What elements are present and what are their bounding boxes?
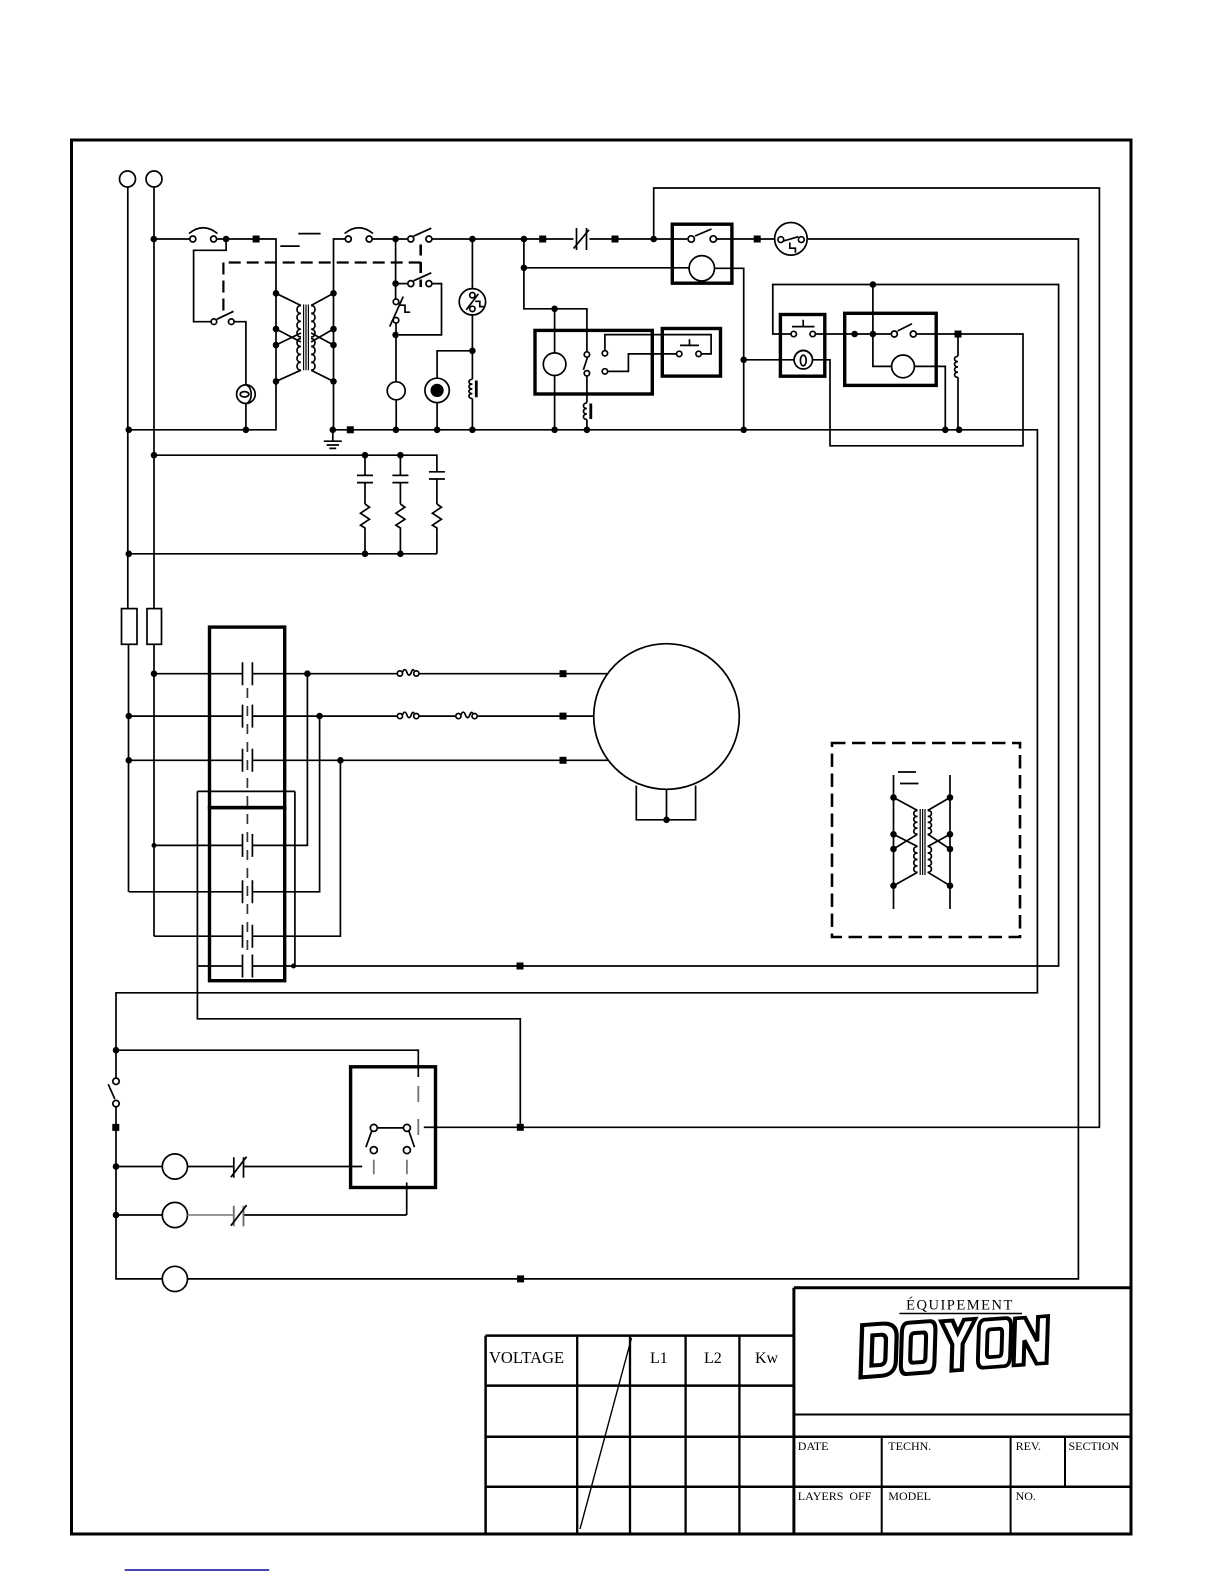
relay K2 contact xyxy=(891,324,916,337)
blue mark bottom xyxy=(125,1569,270,1571)
logo DOYON xyxy=(857,1312,1052,1378)
fuse F1 xyxy=(122,609,138,645)
wire S4 bottom to coil R1 xyxy=(586,376,588,430)
capacitor C2 xyxy=(392,455,408,504)
wire snubber bus y554 xyxy=(129,553,437,555)
transformer TR1 left winding upper xyxy=(297,306,301,337)
wire S1b branch xyxy=(194,239,227,322)
relay K1 box xyxy=(672,224,732,283)
pilot lamp E3 xyxy=(237,385,256,404)
contactor aux frame left xyxy=(197,791,520,1123)
node square N3 xyxy=(612,236,619,243)
voltage table columns xyxy=(577,1336,739,1534)
pilot lamp PL1 xyxy=(162,1154,187,1179)
svg-text:L2: L2 xyxy=(704,1350,722,1367)
terminal circle T1 xyxy=(120,171,136,187)
svg-text:L1: L1 xyxy=(650,1350,668,1367)
wire lamp P2 right loop xyxy=(813,334,1024,446)
wire K3 output stub xyxy=(424,1126,436,1128)
contact main 5 xyxy=(243,880,253,903)
voltage table diagonal xyxy=(580,1338,632,1529)
NC contact NC1 xyxy=(231,1157,247,1178)
node square N8 xyxy=(560,713,567,720)
svg-text:REV.: REV. xyxy=(1016,1439,1041,1453)
transformer TR1 left winding lower xyxy=(297,339,301,371)
terminal circle T2 xyxy=(146,171,162,187)
pilot lamp PL2 xyxy=(162,1202,187,1227)
node square N4 xyxy=(754,236,761,243)
wire motor phase 3 xyxy=(129,759,608,761)
relay K3 box xyxy=(351,1067,436,1188)
wire S3b loop back xyxy=(399,284,442,335)
wire PL1 leads xyxy=(116,1166,362,1168)
wire contact 6 loop xyxy=(154,760,340,936)
coil L5 xyxy=(955,356,958,377)
coil lamp E2 xyxy=(387,382,405,400)
motor terminal box xyxy=(636,786,695,820)
thermal cutout contact TC1 xyxy=(574,228,590,250)
wire aux pair bottom to button B1 left xyxy=(608,354,677,372)
contactor box K1M xyxy=(210,627,285,808)
node square N6 xyxy=(347,426,354,433)
resistor R4 xyxy=(432,504,441,554)
wire K1 coil left feed xyxy=(524,267,689,269)
contact main 6 xyxy=(243,925,253,948)
transformer TR2 left winding lower xyxy=(914,847,918,873)
wire upper loop y188 to relay K3 output xyxy=(436,188,1100,1127)
overload OL2a xyxy=(397,712,419,718)
transformer TR2 marks xyxy=(898,772,919,784)
push button PB2 xyxy=(791,320,815,337)
button box B1 xyxy=(662,329,720,377)
thermal branch x395 xyxy=(395,239,398,430)
transformer TR2 left winding upper xyxy=(914,811,918,835)
svg-text:VOLTAGE: VOLTAGE xyxy=(489,1348,564,1367)
node square N7 xyxy=(560,670,567,677)
wire lamp P2 left feed xyxy=(744,359,794,361)
motor M1 xyxy=(594,644,740,790)
pilot lamp P2 xyxy=(794,350,812,369)
wire motor phase 1 xyxy=(154,673,608,675)
contact main 1 xyxy=(243,662,253,685)
wire sensor branch x437 xyxy=(437,351,472,430)
wire PL2 leads xyxy=(116,1214,407,1216)
switch S1b xyxy=(211,311,234,324)
contactor aux frame right xyxy=(294,791,296,966)
title block column separators xyxy=(882,1437,1065,1534)
wire bus segment e xyxy=(432,238,574,240)
relay K3 contacts xyxy=(366,1124,415,1153)
border frame xyxy=(72,140,1132,1534)
transformer TR2 right winding lower xyxy=(928,847,932,873)
wire L1 vertical xyxy=(127,187,130,892)
transformer TR2 right winding upper xyxy=(928,811,932,835)
contact main 3 xyxy=(243,749,253,772)
contact aux 7 xyxy=(243,955,253,978)
resistor R2 xyxy=(361,504,370,554)
wire heater lamp bottom lead xyxy=(554,376,556,430)
contactor box K2M xyxy=(210,808,285,981)
overload OL1 xyxy=(397,670,419,677)
dashed interlock vertical to S1b xyxy=(222,263,224,314)
transformer TR1 core xyxy=(304,305,309,371)
wire L2 vertical xyxy=(153,187,155,936)
wire TH1 to right drop xyxy=(188,239,1079,1279)
relay K2 box xyxy=(845,313,937,385)
node square N2 xyxy=(539,236,546,243)
svg-text:LAYERS OFF: LAYERS OFF xyxy=(798,1489,872,1503)
wire motor phase 2 xyxy=(129,715,594,717)
voltage table frame xyxy=(486,1336,794,1534)
capacitor C3 xyxy=(429,472,445,504)
heater box H1 xyxy=(535,330,652,394)
transformer TR2 diagonals xyxy=(894,798,951,886)
thermal protector TP1 xyxy=(390,297,411,327)
contact main 4 xyxy=(243,834,253,857)
node square N9 xyxy=(560,757,567,764)
wire contact 5 loop xyxy=(129,716,320,892)
wire bus segment f xyxy=(590,238,688,240)
dashed contact stubs K3 xyxy=(374,1160,407,1175)
wire contact 4 loop xyxy=(154,674,307,846)
pilot lamp PL3 xyxy=(162,1266,187,1291)
wire snubber feed y455 xyxy=(154,455,437,472)
transformer TR1 right winding upper xyxy=(311,306,315,337)
switch S3a xyxy=(408,228,432,242)
svg-text:TECHN.: TECHN. xyxy=(888,1439,931,1453)
node square N13 xyxy=(112,1124,119,1131)
coil R1 with bar xyxy=(583,403,590,420)
wire K3 bottom to lamp2 line xyxy=(406,1183,408,1216)
overload OL2b xyxy=(456,712,477,718)
transformer TR1 right winding lower xyxy=(311,339,315,371)
dashed box remote transformer xyxy=(832,743,1020,937)
node square N1 xyxy=(253,236,260,243)
wire K1 coil right to drop x743 xyxy=(715,268,744,430)
svg-text:Kw: Kw xyxy=(755,1350,779,1367)
wire aux pair top loop to button B1 xyxy=(605,335,711,354)
thermostat TH1 xyxy=(775,223,808,256)
transformer TR2 left lead xyxy=(893,775,895,909)
switch S3b xyxy=(396,273,432,287)
switch S5 xyxy=(108,1078,119,1107)
button box B2 xyxy=(780,315,824,377)
transformer TR1 diagonals xyxy=(276,293,334,381)
heater coil L3 with bar xyxy=(469,379,476,398)
wire heater feed drop x523 xyxy=(524,239,587,352)
relay K2 coil xyxy=(892,355,915,378)
wire top bus to transformer left lead and left bus xyxy=(129,239,276,430)
svg-text:MODEL: MODEL xyxy=(888,1489,931,1503)
svg-text:NO.: NO. xyxy=(1016,1489,1036,1503)
breaker CB2 xyxy=(345,228,373,242)
svg-text:SECTION: SECTION xyxy=(1069,1439,1120,1453)
dashed interlock link S3 xyxy=(419,245,422,288)
node square N5 xyxy=(955,331,962,338)
title block row line 2 xyxy=(794,1435,1131,1438)
node square N10 xyxy=(517,963,524,970)
wire K2 coil feed vertical xyxy=(873,285,892,367)
defrost timer DT1 xyxy=(459,289,485,315)
title block logo divider xyxy=(794,1414,1131,1416)
wire transformer right lead to breaker CB2 xyxy=(334,239,346,430)
transformer TR2 core xyxy=(920,809,925,875)
fuse F2 xyxy=(147,609,162,645)
heater aux contact pair xyxy=(602,351,607,375)
capacitor C1 xyxy=(357,455,373,504)
sensor bulb SB1 xyxy=(425,378,449,402)
breaker CB1 xyxy=(189,228,218,242)
transformer TR2 right lead xyxy=(949,775,951,909)
relay K1 contact xyxy=(688,229,717,242)
wire neutral bus right xyxy=(116,430,1037,1279)
dashed actuator link K3 xyxy=(417,1086,419,1136)
dashed interlock horizontal xyxy=(223,261,420,263)
title block top edge xyxy=(794,1286,1131,1289)
wire heater lamp top lead xyxy=(554,309,556,353)
svg-text:DATE: DATE xyxy=(798,1439,829,1453)
wire S1b to lamp E3 xyxy=(234,322,246,430)
defrost timer branch x472 xyxy=(471,239,473,430)
wire K2 coil out xyxy=(914,366,945,429)
wire aux contact left stub xyxy=(197,965,242,967)
heater lamp E1 xyxy=(543,353,566,376)
wire top bus segment a xyxy=(154,238,190,240)
contact main 2 xyxy=(243,705,253,728)
title block row line 3 xyxy=(794,1485,1131,1488)
node square N11 xyxy=(517,1124,524,1131)
transformer TR1 marks xyxy=(280,234,320,247)
wire pilot branch feed y1050 xyxy=(116,1050,418,1077)
title block left edge xyxy=(792,1288,795,1534)
wire K1 contact out xyxy=(717,238,775,240)
contactor aux frame top xyxy=(197,790,295,792)
wire control net y284 down right side to contactor aux xyxy=(253,285,1059,967)
dashed contactor linkage xyxy=(246,688,248,952)
resistor R3 xyxy=(396,504,405,554)
ground symbol xyxy=(324,430,342,449)
heater switch S4 xyxy=(583,352,589,376)
underline EQUIPEMENT xyxy=(899,1313,1022,1315)
wire B2 to relay K2 xyxy=(815,333,891,335)
coil L5 drop xyxy=(957,334,959,430)
relay K1 coil xyxy=(689,256,714,281)
NC contact NC2 xyxy=(231,1205,247,1226)
wire bus segment d xyxy=(372,238,408,240)
push button PB1 xyxy=(677,339,702,356)
svg-text:ÉQUIPEMENT: ÉQUIPEMENT xyxy=(906,1297,1014,1314)
node square N12 xyxy=(517,1275,524,1282)
